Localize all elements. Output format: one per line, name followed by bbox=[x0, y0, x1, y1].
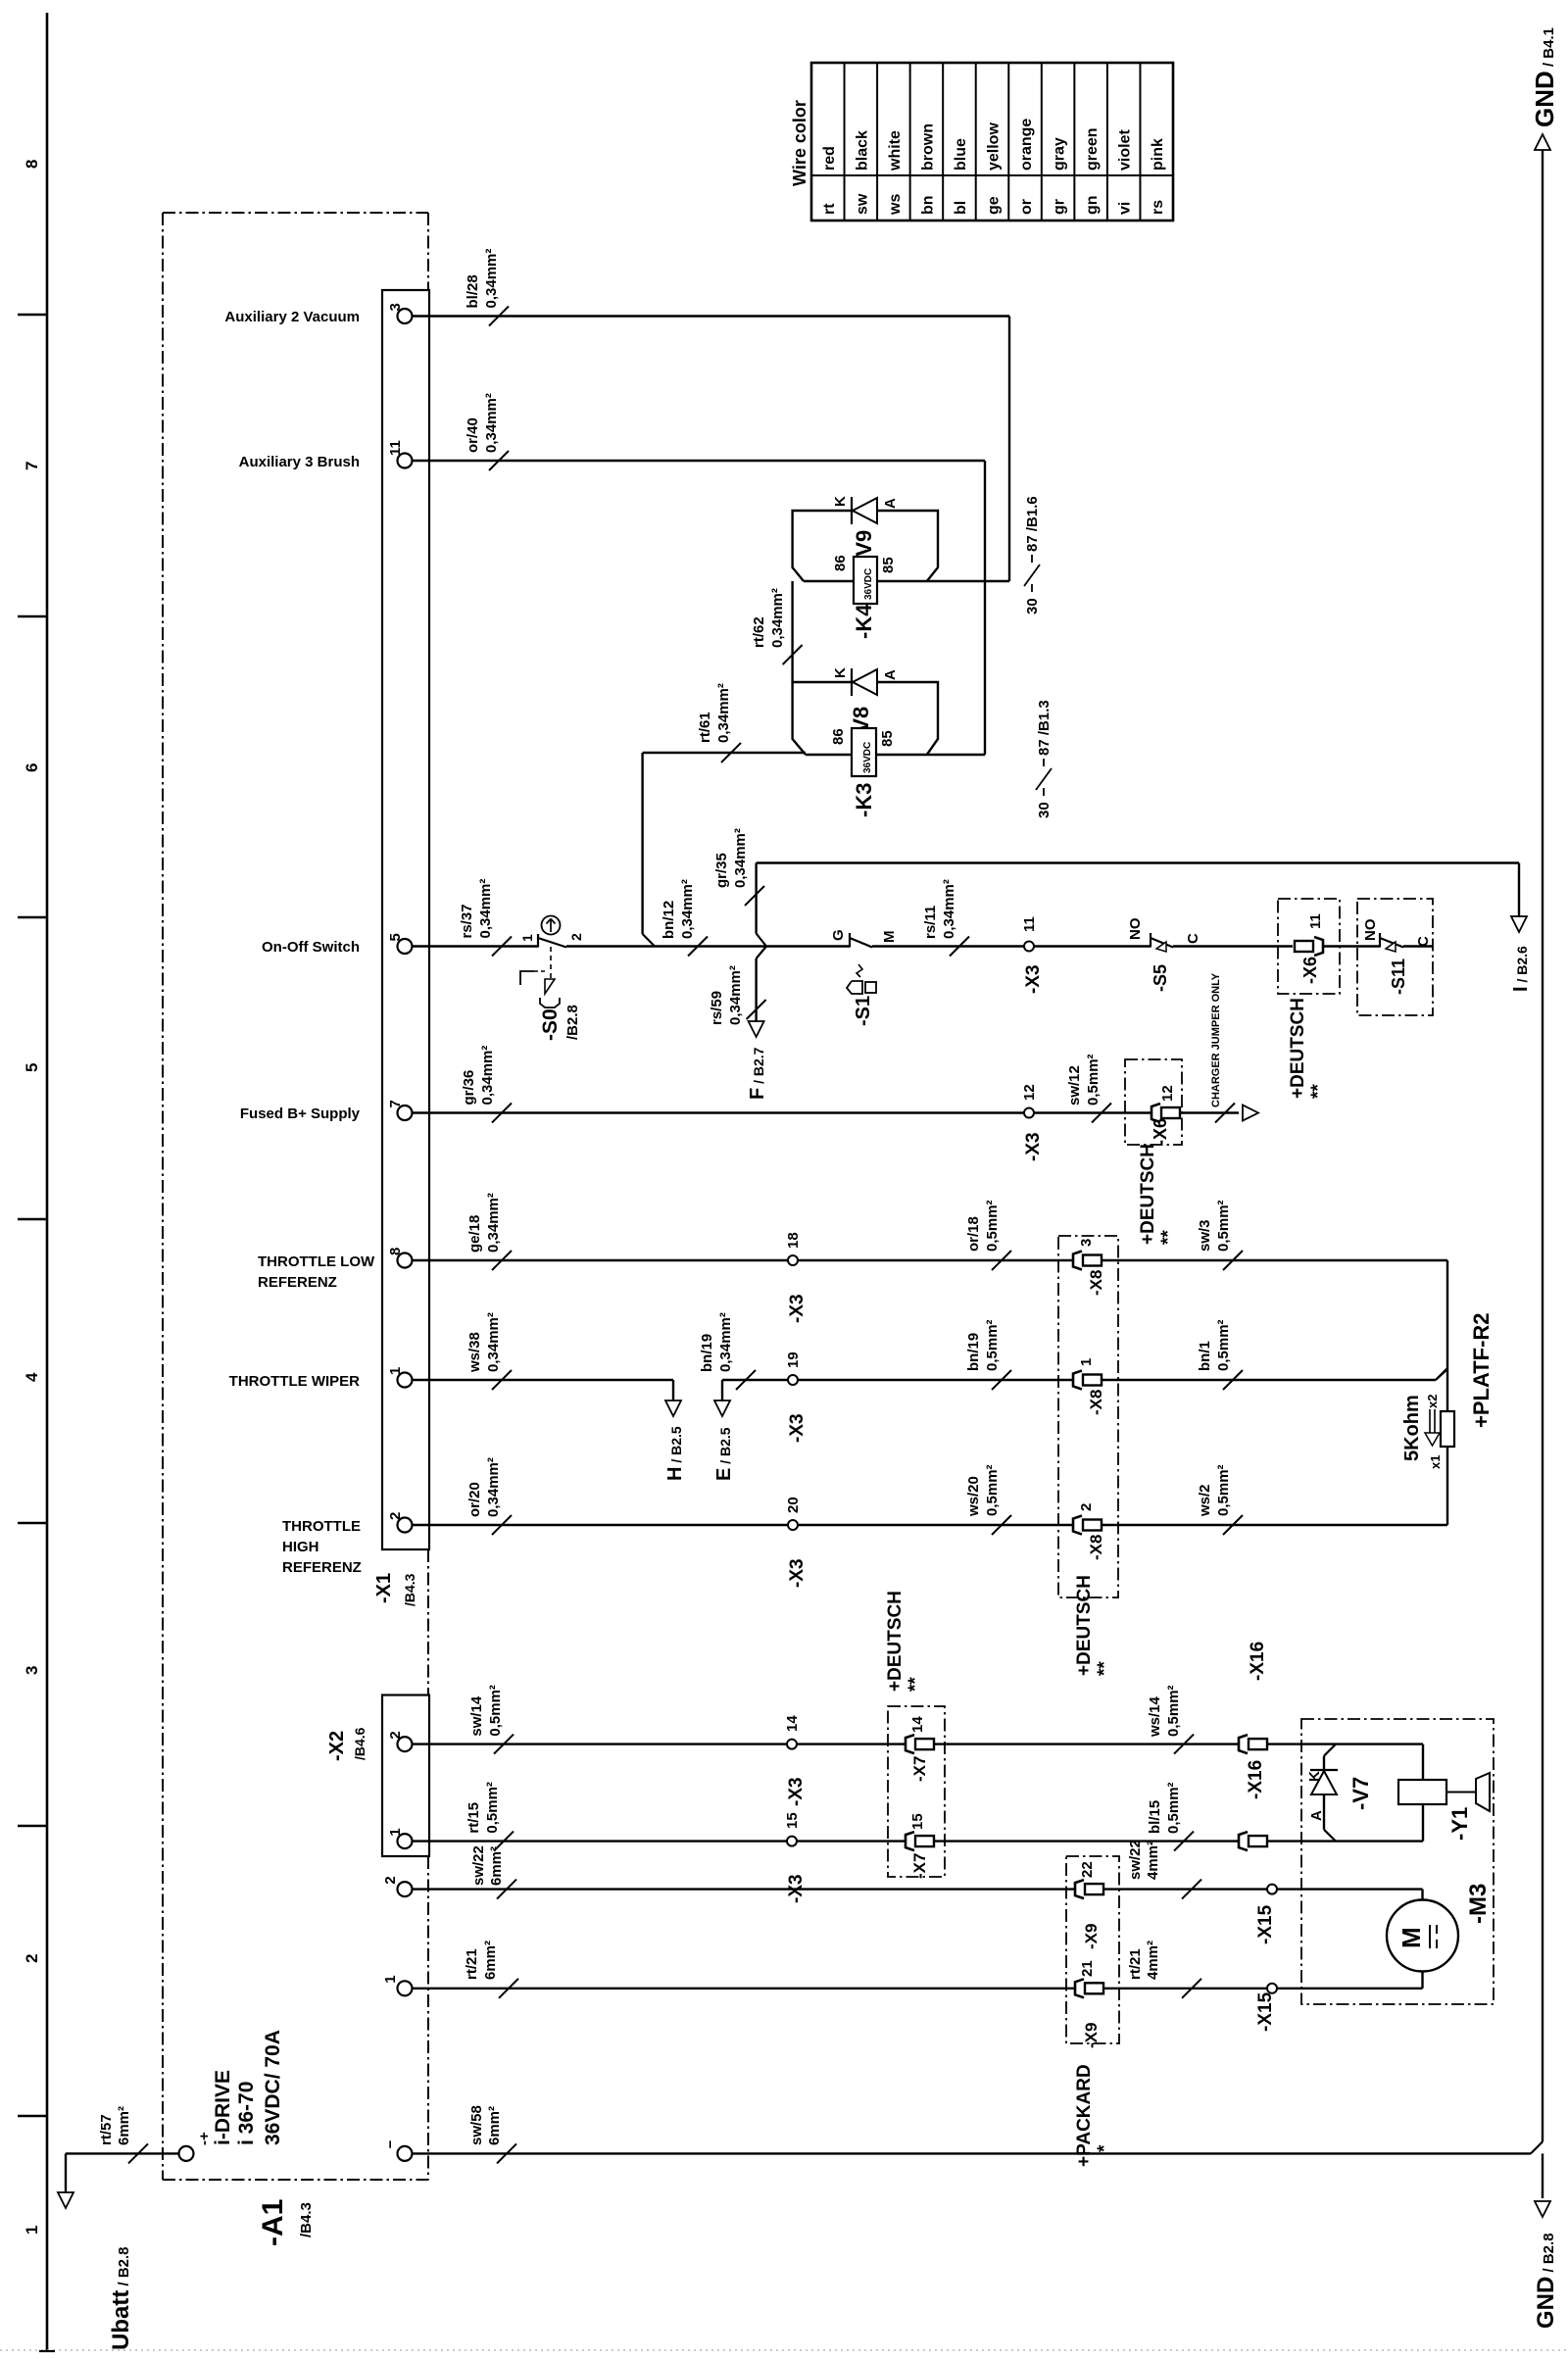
svg-text:i-DRIVE: i-DRIVE bbox=[212, 2070, 234, 2145]
svg-text:7: 7 bbox=[387, 1100, 404, 1107]
svg-text:5: 5 bbox=[23, 1063, 41, 1072]
charger jumper stub bbox=[1180, 1111, 1239, 1113]
svg-text:3: 3 bbox=[1078, 1239, 1095, 1247]
svg-text:-S0: -S0 bbox=[539, 1008, 562, 1041]
svg-text:REFERENZ: REFERENZ bbox=[282, 1559, 362, 1576]
svg-text:2: 2 bbox=[1078, 1503, 1095, 1511]
svg-text:12: 12 bbox=[1159, 1085, 1176, 1102]
svg-text:+PACKARD: +PACKARD bbox=[1074, 2064, 1095, 2167]
relay K3 coil loop bbox=[793, 682, 938, 755]
svg-text:red: red bbox=[821, 146, 838, 171]
diode V8 bbox=[851, 668, 853, 696]
svg-text:2: 2 bbox=[382, 1876, 399, 1884]
svg-text:rt/21: rt/21 bbox=[464, 1948, 480, 1980]
svg-text:I / B2.6: I / B2.6 bbox=[1510, 946, 1532, 992]
terminal X3:19 bbox=[788, 1375, 798, 1385]
svg-text:6: 6 bbox=[23, 763, 41, 772]
svg-text:-X3: -X3 bbox=[1023, 964, 1044, 994]
svg-text:-X16: -X16 bbox=[1246, 1760, 1266, 1799]
wire gr/36 from X1 pin 7 bbox=[413, 1111, 1025, 1113]
svg-text:0,5mm²: 0,5mm² bbox=[1215, 1464, 1232, 1516]
wire bl/28 from X1 pin 3 bbox=[413, 315, 1010, 317]
svg-text:4mm²: 4mm² bbox=[1145, 1941, 1161, 1980]
X1 pin 1 bbox=[398, 1373, 413, 1388]
svg-text:sw/3: sw/3 bbox=[1197, 1219, 1213, 1252]
svg-text:7: 7 bbox=[23, 462, 41, 470]
svg-text:0,5mm²: 0,5mm² bbox=[984, 1200, 1001, 1252]
svg-text:*: * bbox=[1095, 2144, 1115, 2152]
svg-text:30: 30 bbox=[1036, 802, 1053, 818]
svg-text:ws/14: ws/14 bbox=[1147, 1696, 1163, 1738]
diode V9 bbox=[851, 497, 853, 524]
svg-text:14: 14 bbox=[909, 1716, 926, 1733]
wire bl/15 to X16 bbox=[934, 1840, 1239, 1842]
wire sw/14 from X2 pin 2 bbox=[413, 1743, 906, 1745]
svg-text:6mm²: 6mm² bbox=[116, 2106, 132, 2145]
connector X6 pin 11 bbox=[1295, 937, 1323, 956]
connector X7 pin 15 bbox=[906, 1832, 914, 1850]
svg-text:yellow: yellow bbox=[986, 123, 1003, 171]
svg-text:THROTTLE WIPER: THROTTLE WIPER bbox=[229, 1373, 360, 1390]
X1 pin 3 bbox=[398, 309, 413, 323]
terminal X3:11 bbox=[1024, 942, 1034, 952]
svg-text:-X7: -X7 bbox=[910, 1756, 929, 1782]
svg-text:8: 8 bbox=[23, 160, 41, 169]
wire X15 to motor bbox=[1277, 1888, 1423, 1890]
X9 enclosure bbox=[1066, 1856, 1119, 2043]
relay K4 coil loop bbox=[793, 511, 938, 581]
off-page arrow E / B2.5 bbox=[721, 1380, 723, 1401]
terminal X15 row 21 bbox=[1267, 1984, 1277, 1993]
svg-text:bn/1: bn/1 bbox=[1197, 1341, 1213, 1371]
wire S5 to X6:11 bbox=[1173, 945, 1293, 947]
wire gr/35 horizontal bus bbox=[757, 861, 1519, 863]
svg-text:M: M bbox=[881, 931, 898, 944]
X1 pin 2 bbox=[398, 1518, 413, 1533]
A1 terminal minus bbox=[398, 2146, 413, 2161]
svg-text:ws/20: ws/20 bbox=[965, 1476, 982, 1517]
svg-text:or/20: or/20 bbox=[466, 1482, 483, 1517]
svg-text:6mm²: 6mm² bbox=[482, 1941, 499, 1980]
svg-text:gray: gray bbox=[1052, 137, 1068, 171]
svg-text:sw/12: sw/12 bbox=[1066, 1065, 1083, 1106]
svg-text:C: C bbox=[1185, 933, 1201, 944]
svg-text:or/40: or/40 bbox=[465, 418, 481, 453]
X6:11 enclosure bbox=[1278, 899, 1340, 994]
svg-text:86: 86 bbox=[830, 728, 847, 745]
wire bn/19 X3:19 to X8:1 bbox=[798, 1379, 1072, 1381]
svg-text:-X3: -X3 bbox=[1023, 1132, 1044, 1161]
svg-text:3: 3 bbox=[387, 303, 404, 311]
svg-text:0,5mm²: 0,5mm² bbox=[984, 1319, 1001, 1371]
svg-text:85: 85 bbox=[880, 557, 897, 573]
svg-text:-X8: -X8 bbox=[1087, 1270, 1105, 1296]
wire X3:11 to S5 bbox=[1034, 945, 1151, 947]
svg-text:/B2.8: /B2.8 bbox=[564, 1005, 581, 1040]
wire bn/1 to platform bbox=[1102, 1379, 1436, 1381]
svg-text:1: 1 bbox=[23, 2226, 41, 2235]
svg-text:sw: sw bbox=[854, 193, 870, 215]
off-page arrow H / B2.5 bbox=[672, 1380, 674, 1401]
svg-text:ws/38: ws/38 bbox=[466, 1332, 483, 1373]
X7 enclosure bbox=[888, 1706, 945, 1877]
svg-text:M: M bbox=[1396, 1927, 1426, 1948]
svg-text:E / B2.5: E / B2.5 bbox=[713, 1427, 735, 1481]
X2 pin 1 bbox=[398, 1834, 413, 1848]
svg-text:87 /B1.3: 87 /B1.3 bbox=[1036, 700, 1053, 756]
svg-text:gn: gn bbox=[1084, 195, 1101, 215]
wire rt/62 (K4 86 feed) bbox=[791, 581, 793, 682]
potentiometer R2 5Kohm bbox=[1441, 1411, 1454, 1447]
X6:12 enclosure bbox=[1125, 1059, 1182, 1145]
svg-text:NO: NO bbox=[1362, 918, 1379, 941]
svg-text:Wire color: Wire color bbox=[790, 100, 809, 186]
svg-text:0,34mm²: 0,34mm² bbox=[941, 879, 957, 939]
svg-text:+PLATF-R2: +PLATF-R2 bbox=[1469, 1312, 1494, 1428]
wire sw/22 4mm to X15 bbox=[1103, 1888, 1267, 1890]
V7 diode branch bbox=[1324, 1745, 1336, 1756]
svg-text:H / B2.5: H / B2.5 bbox=[664, 1426, 686, 1481]
svg-text:1: 1 bbox=[1078, 1358, 1095, 1366]
A1 terminal 1 (rt/21) bbox=[398, 1981, 413, 1995]
svg-text:bl/28: bl/28 bbox=[465, 274, 481, 308]
svg-text:gr: gr bbox=[1052, 199, 1068, 215]
svg-text:K: K bbox=[832, 667, 849, 678]
svg-text:11: 11 bbox=[1307, 913, 1324, 929]
Y1 vacuum solenoid bbox=[1422, 1745, 1424, 1842]
svg-text:-X8: -X8 bbox=[1087, 1535, 1105, 1560]
svg-text:bn/12: bn/12 bbox=[661, 901, 677, 939]
svg-text:black: black bbox=[854, 130, 870, 171]
off-page arrow GND / B4.1 bbox=[1535, 134, 1550, 150]
svg-text:2: 2 bbox=[387, 1731, 404, 1739]
svg-text:HIGH: HIGH bbox=[282, 1539, 319, 1555]
svg-text:-V7: -V7 bbox=[1348, 1777, 1373, 1810]
svg-text:F / B2.7: F / B2.7 bbox=[747, 1047, 768, 1100]
connector X8 pin 1 bbox=[1073, 1371, 1082, 1390]
connector X8 pin 2 bbox=[1073, 1516, 1082, 1535]
wire x1 to ws/2 bbox=[1446, 1447, 1448, 1525]
svg-text:rs/59: rs/59 bbox=[709, 991, 725, 1025]
svg-text:bn/19: bn/19 bbox=[965, 1333, 982, 1371]
wire S0 to S1 bbox=[566, 945, 850, 947]
A1 terminal plus bbox=[179, 2146, 194, 2161]
svg-text:+DEUTSCH: +DEUTSCH bbox=[1288, 998, 1308, 1099]
svg-text:36VDC/ 70A: 36VDC/ 70A bbox=[262, 2030, 284, 2145]
svg-text:0,5mm²: 0,5mm² bbox=[984, 1464, 1001, 1516]
svg-text:-X6: -X6 bbox=[1151, 1118, 1170, 1146]
svg-text:rt/57: rt/57 bbox=[98, 2114, 115, 2145]
svg-text:-A1: -A1 bbox=[257, 2199, 289, 2246]
svg-text:-X1: -X1 bbox=[373, 1573, 395, 1603]
svg-text:5Kohm: 5Kohm bbox=[1401, 1395, 1423, 1461]
svg-text:/B4.6: /B4.6 bbox=[352, 1727, 367, 1760]
svg-text:**: ** bbox=[1095, 1661, 1115, 1676]
svg-text:-M3: -M3 bbox=[1465, 1884, 1492, 1924]
svg-text:On-Off Switch: On-Off Switch bbox=[262, 939, 360, 956]
svg-text:ws/2: ws/2 bbox=[1197, 1484, 1213, 1517]
svg-text:ws: ws bbox=[887, 194, 904, 216]
wire ws/38 from X1 pin 1 bbox=[413, 1379, 674, 1381]
svg-text:ge: ge bbox=[986, 196, 1003, 215]
terminal X15 row 22 bbox=[1267, 1885, 1277, 1894]
X2 pin 2 bbox=[398, 1737, 413, 1751]
drawing frame border line bbox=[46, 13, 49, 2351]
svg-text:sw/22: sw/22 bbox=[1127, 1840, 1144, 1880]
svg-text:0,34mm²: 0,34mm² bbox=[483, 393, 500, 453]
wire rt/21 4mm to X15 bbox=[1103, 1988, 1267, 1990]
svg-text:/B4.3: /B4.3 bbox=[298, 2202, 315, 2237]
svg-text:bl: bl bbox=[953, 201, 969, 215]
wire or/20 from X1 pin 2 bbox=[413, 1524, 789, 1526]
svg-text:bn: bn bbox=[919, 195, 936, 215]
svg-text:-+: -+ bbox=[196, 2132, 213, 2145]
wire rt/61 horizontal bbox=[643, 752, 806, 754]
svg-text:36VDC: 36VDC bbox=[862, 742, 873, 773]
switch S0 bbox=[537, 934, 539, 948]
svg-text:36VDC: 36VDC bbox=[863, 568, 874, 600]
wire rs/37 from X1 pin 5 bbox=[413, 945, 539, 947]
svg-text:-X8: -X8 bbox=[1087, 1390, 1105, 1415]
svg-text:30: 30 bbox=[1024, 598, 1041, 614]
svg-text:+DEUTSCH: +DEUTSCH bbox=[1138, 1144, 1158, 1245]
connector X7 pin 14 bbox=[906, 1735, 914, 1753]
X1 pin 8 bbox=[398, 1253, 413, 1268]
svg-text:0,34mm²: 0,34mm² bbox=[477, 879, 494, 939]
svg-text:19: 19 bbox=[785, 1352, 802, 1368]
svg-text:0,34mm²: 0,34mm² bbox=[485, 1457, 502, 1517]
svg-text:THROTTLE LOW: THROTTLE LOW bbox=[258, 1253, 375, 1270]
off-page arrow GND / B2.8 bbox=[1542, 2153, 1543, 2198]
svg-text:6mm²: 6mm² bbox=[486, 2106, 503, 2145]
terminal X3:20 bbox=[788, 1520, 798, 1530]
wire rt/21 from terminal 1 bbox=[413, 1988, 1076, 1990]
wire K4 85 to bl/28 bbox=[804, 580, 1009, 582]
svg-text:+DEUTSCH: +DEUTSCH bbox=[1074, 1575, 1095, 1676]
svg-text:18: 18 bbox=[785, 1232, 802, 1249]
svg-text:1: 1 bbox=[519, 934, 535, 942]
svg-text:i 36-70: i 36-70 bbox=[235, 2082, 258, 2145]
svg-text:Auxiliary 3 Brush: Auxiliary 3 Brush bbox=[239, 454, 360, 470]
svg-text:x1: x1 bbox=[1428, 1455, 1443, 1469]
svg-text:2: 2 bbox=[568, 933, 584, 941]
wire gr/35 vertical bbox=[755, 863, 757, 934]
svg-text:0,34mm²: 0,34mm² bbox=[732, 828, 749, 888]
svg-text:-X2: -X2 bbox=[326, 1731, 348, 1761]
svg-text:0,34mm²: 0,34mm² bbox=[715, 683, 732, 743]
S11 enclosure bbox=[1357, 899, 1433, 1015]
svg-text:2: 2 bbox=[387, 1512, 404, 1520]
X16 terminal row 15 bbox=[1239, 1832, 1248, 1850]
GND rail vertical bbox=[1542, 150, 1543, 2141]
X1 pin 11 bbox=[398, 454, 413, 468]
connector X2 box bbox=[382, 1696, 429, 1857]
svg-text:blue: blue bbox=[953, 138, 969, 171]
svg-text:orange: orange bbox=[1018, 119, 1035, 171]
X1 pin 7 bbox=[398, 1106, 413, 1120]
svg-text:CHARGER JUMPER ONLY: CHARGER JUMPER ONLY bbox=[1210, 972, 1222, 1107]
svg-text:-X3: -X3 bbox=[787, 1558, 808, 1588]
svg-text:rs/37: rs/37 bbox=[459, 904, 475, 938]
svg-text:3: 3 bbox=[23, 1666, 41, 1675]
svg-text:0,5mm²: 0,5mm² bbox=[1165, 1685, 1182, 1737]
wire ws/2 to platform bbox=[1102, 1524, 1447, 1526]
page bottom dotted border bbox=[0, 2349, 1568, 2351]
svg-text:rt/21: rt/21 bbox=[1127, 1948, 1144, 1980]
K3 coil box 36VDC bbox=[852, 728, 876, 776]
svg-text:/B4.3: /B4.3 bbox=[402, 1573, 417, 1606]
svg-text:0,5mm²: 0,5mm² bbox=[487, 1685, 504, 1737]
wire rs/11 S1 to X3 bbox=[872, 945, 1024, 947]
A1 terminal 2 (sw/22) bbox=[398, 1882, 413, 1896]
off-page arrow F / B2.7 bbox=[749, 1021, 764, 1037]
svg-text:rs: rs bbox=[1150, 200, 1166, 215]
svg-text:-K4: -K4 bbox=[852, 604, 876, 639]
svg-text:0,34mm²: 0,34mm² bbox=[485, 1312, 502, 1372]
svg-text:0,34mm²: 0,34mm² bbox=[727, 965, 744, 1025]
svg-text:2: 2 bbox=[23, 1954, 41, 1963]
svg-text:sw/22: sw/22 bbox=[470, 1845, 487, 1886]
wire X6:11 to S11 bbox=[1323, 945, 1380, 947]
connector X6 pin 12 bbox=[1151, 1104, 1160, 1122]
svg-text:white: white bbox=[887, 130, 904, 172]
svg-text:-X3: -X3 bbox=[787, 1413, 808, 1443]
connector X9 pin 22 bbox=[1075, 1880, 1084, 1898]
svg-text:-S11: -S11 bbox=[1389, 958, 1408, 995]
svg-text:8: 8 bbox=[387, 1248, 404, 1255]
svg-text:K: K bbox=[832, 496, 849, 507]
svg-text:-K3: -K3 bbox=[852, 783, 876, 817]
wire ge/18 from X1 pin 8 bbox=[413, 1259, 789, 1261]
controller A1 boundary box bbox=[163, 212, 428, 214]
svg-text:THROTTLE: THROTTLE bbox=[282, 1518, 361, 1535]
svg-text:0,5mm²: 0,5mm² bbox=[1215, 1200, 1232, 1252]
svg-text:vi: vi bbox=[1117, 202, 1134, 215]
svg-text:−: − bbox=[382, 2139, 399, 2148]
wire ws/14 into V7 loop bbox=[1267, 1743, 1423, 1745]
svg-text:REFERENZ: REFERENZ bbox=[258, 1274, 337, 1291]
svg-text:15: 15 bbox=[909, 1813, 926, 1830]
svg-text:0,34mm²: 0,34mm² bbox=[679, 879, 696, 939]
svg-text:5: 5 bbox=[387, 933, 404, 941]
svg-text:A: A bbox=[882, 498, 899, 509]
wire or/18 X3:18 to X8:3 bbox=[798, 1259, 1072, 1261]
wire rt/61 vertical from On-Off row bbox=[641, 753, 643, 934]
svg-text:**: ** bbox=[1308, 1084, 1329, 1099]
svg-text:rt/15: rt/15 bbox=[465, 1802, 482, 1834]
svg-text:0,5mm²: 0,5mm² bbox=[1085, 1054, 1102, 1106]
svg-text:-X6: -X6 bbox=[1300, 957, 1320, 984]
svg-text:1: 1 bbox=[382, 1975, 399, 1983]
svg-text:-X3: -X3 bbox=[786, 1777, 807, 1806]
svg-text:-X9: -X9 bbox=[1082, 2023, 1101, 2048]
connector X8 pin 3 bbox=[1073, 1252, 1082, 1270]
svg-text:**: ** bbox=[906, 1677, 926, 1692]
wire rs/59 vertical bbox=[755, 958, 757, 1022]
wire ws/20 X3:20 to X8:2 bbox=[798, 1524, 1072, 1526]
svg-text:-X15: -X15 bbox=[1255, 1904, 1276, 1944]
K4 coil box 36VDC bbox=[854, 557, 877, 604]
X1 pin 5 bbox=[398, 939, 413, 954]
svg-text:4: 4 bbox=[23, 1372, 41, 1382]
svg-text:0,34mm²: 0,34mm² bbox=[483, 249, 500, 309]
svg-text:gr/35: gr/35 bbox=[713, 853, 730, 888]
svg-text:0,34mm²: 0,34mm² bbox=[479, 1046, 496, 1106]
svg-text:sw/14: sw/14 bbox=[468, 1696, 485, 1737]
svg-text:K: K bbox=[1306, 1771, 1323, 1782]
svg-text:0,34mm²: 0,34mm² bbox=[485, 1193, 502, 1253]
svg-text:sw/58: sw/58 bbox=[468, 2105, 485, 2145]
svg-text:pink: pink bbox=[1150, 138, 1166, 171]
svg-text:87 /B1.6: 87 /B1.6 bbox=[1024, 496, 1041, 552]
svg-text:-X3: -X3 bbox=[787, 1294, 808, 1323]
svg-text:86: 86 bbox=[832, 555, 849, 571]
terminal X3:18 bbox=[788, 1255, 798, 1265]
wire sw/3 drop to potentiometer bbox=[1446, 1260, 1448, 1369]
svg-text:x2: x2 bbox=[1425, 1395, 1440, 1408]
connector X1 box bbox=[382, 290, 429, 1549]
wire X15 to motor bottom bbox=[1277, 1988, 1423, 1990]
svg-text:violet: violet bbox=[1117, 129, 1134, 171]
junction to gr/35 and rs/59 bbox=[757, 934, 766, 947]
svg-text:ge/18: ge/18 bbox=[466, 1215, 483, 1253]
X16 terminal row 14 bbox=[1239, 1735, 1248, 1753]
svg-text:bl/15: bl/15 bbox=[1147, 1800, 1163, 1834]
svg-text:1: 1 bbox=[387, 1828, 404, 1836]
svg-text:rt: rt bbox=[821, 203, 838, 215]
svg-text:-X16: -X16 bbox=[1248, 1642, 1268, 1681]
svg-text:rs/11: rs/11 bbox=[922, 906, 939, 939]
svg-text:-X7: -X7 bbox=[910, 1853, 929, 1879]
frame end tick bbox=[39, 2350, 55, 2352]
off-page arrow Ubatt / B2.8 bbox=[65, 2153, 67, 2193]
svg-text:22: 22 bbox=[1079, 1861, 1096, 1878]
svg-text:14: 14 bbox=[784, 1715, 801, 1732]
svg-text:12: 12 bbox=[1021, 1084, 1038, 1101]
svg-text:or/18: or/18 bbox=[965, 1216, 982, 1252]
svg-text:-Y1: -Y1 bbox=[1447, 1807, 1472, 1841]
svg-text:rt/61: rt/61 bbox=[697, 712, 713, 743]
wire rt/57 from terminal plus bbox=[66, 2152, 179, 2154]
terminal X3:12 bbox=[1024, 1108, 1034, 1118]
wire rt/15 from X2 pin 1 bbox=[413, 1840, 906, 1842]
wire or/40 from X1 pin 11 bbox=[413, 460, 986, 462]
svg-text:6mm²: 6mm² bbox=[488, 1846, 505, 1886]
svg-text:**: ** bbox=[1158, 1230, 1179, 1245]
svg-text:85: 85 bbox=[879, 730, 896, 747]
wire K3 85 to or/40 bbox=[806, 754, 985, 756]
off-page arrow I / B2.6 bbox=[1518, 863, 1520, 918]
svg-text:brown: brown bbox=[919, 123, 936, 171]
wire or/40 vertical to K3 bbox=[984, 461, 986, 755]
svg-text:green: green bbox=[1084, 127, 1101, 171]
connector X9 pin 21 bbox=[1075, 1979, 1084, 1997]
wire ws/14 to X16 bbox=[934, 1743, 1239, 1745]
svg-text:or: or bbox=[1018, 199, 1035, 215]
svg-text:A: A bbox=[1308, 1810, 1325, 1821]
svg-text:+DEUTSCH: +DEUTSCH bbox=[885, 1591, 906, 1692]
wire sw/3 to platform bbox=[1102, 1259, 1447, 1261]
svg-text:11: 11 bbox=[1021, 916, 1038, 932]
svg-text:NO: NO bbox=[1127, 917, 1144, 940]
svg-text:-S1: -S1 bbox=[853, 996, 874, 1026]
frame tick marks bbox=[18, 314, 47, 316]
wire sw/12 to X6:12 bbox=[1034, 1111, 1151, 1113]
svg-text:-S5: -S5 bbox=[1151, 964, 1170, 992]
svg-text:bn/19: bn/19 bbox=[699, 1334, 715, 1372]
svg-text:Fused B+ Supply: Fused B+ Supply bbox=[240, 1106, 361, 1122]
svg-text:Auxiliary 2 Vacuum: Auxiliary 2 Vacuum bbox=[224, 309, 360, 325]
